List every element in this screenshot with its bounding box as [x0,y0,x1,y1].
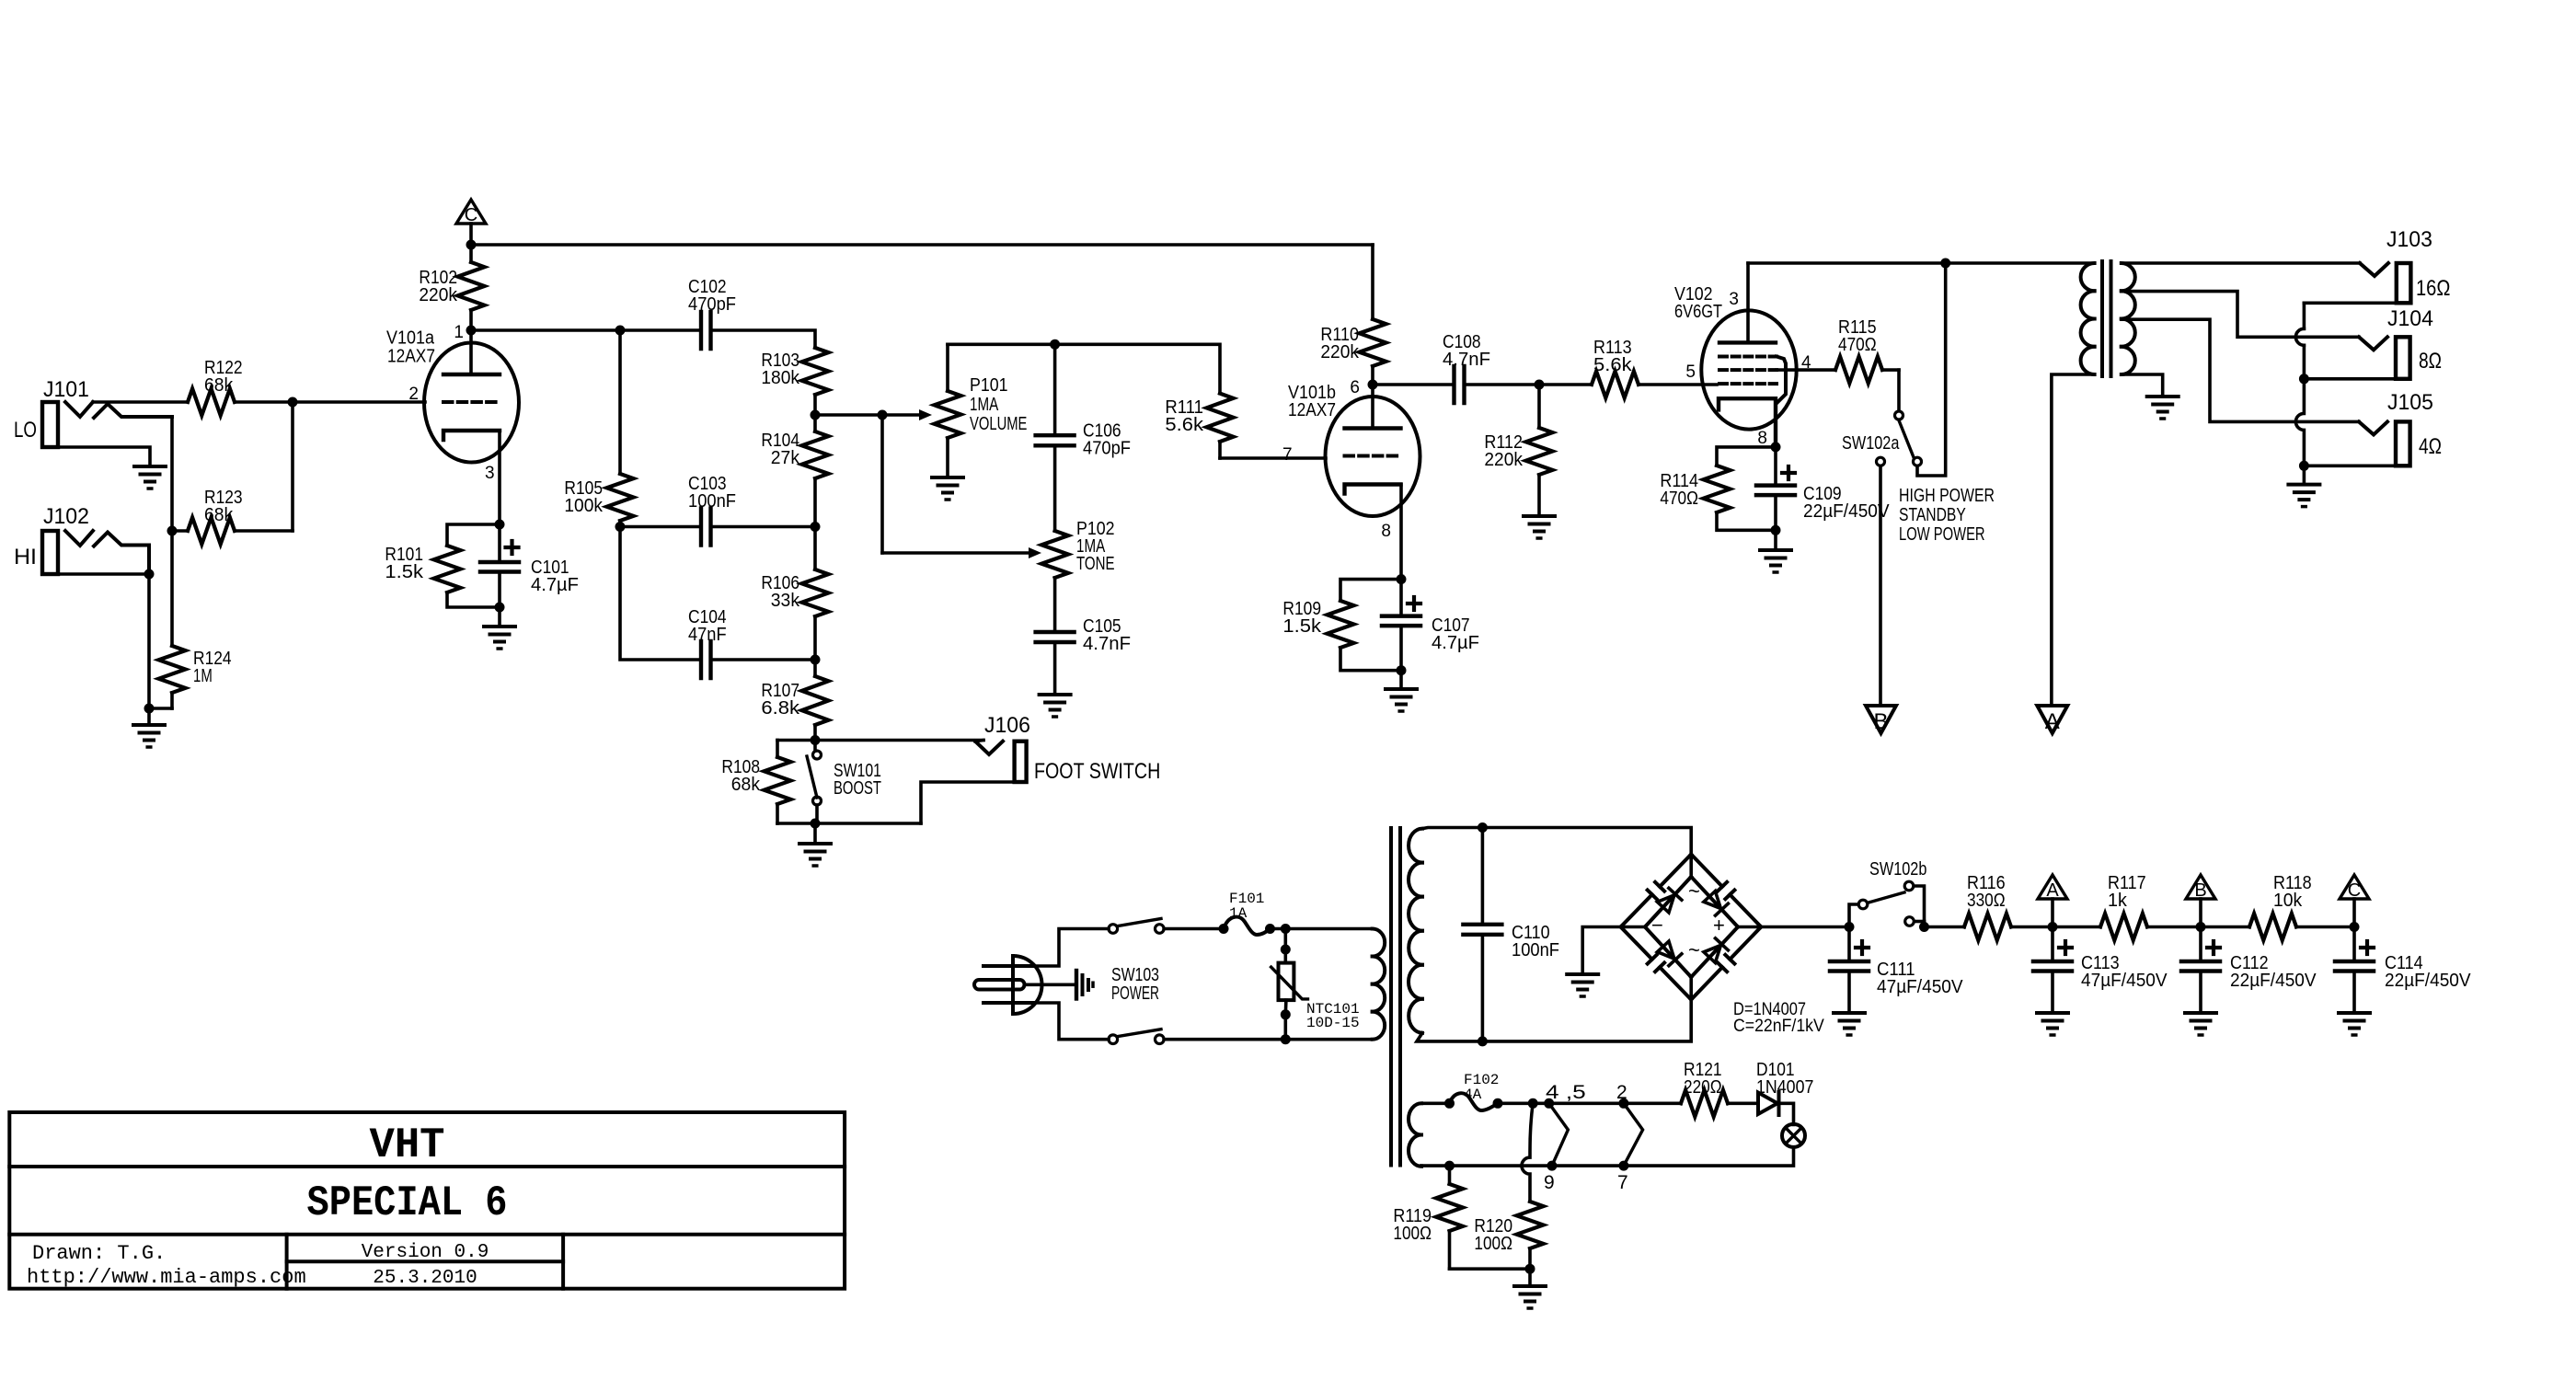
label 8 ohm [2419,349,2442,374]
pin label 2 heater [1616,1082,1627,1103]
svg-text:5.6k: 5.6k [1165,415,1204,435]
label R103 180k [761,351,799,371]
svg-text:1N4007: 1N4007 [1756,1077,1813,1098]
label C107 4.7uF [1432,633,1479,653]
wire: V101b cathode lead [1399,485,1403,580]
wire: C112 ground lead [2199,972,2202,1014]
wire: C114 top lead [2352,927,2356,962]
svg-text:47µF/450V: 47µF/450V [1877,977,1963,997]
label J102 [43,504,89,529]
junction: R122/R123 to grid [288,397,298,408]
jack J105 sleeve [2304,464,2396,467]
svg-text:1A: 1A [1229,905,1248,922]
label SW101 BOOST [834,778,881,799]
wire: NTC top lead [1284,929,1288,963]
mains plug neutral prong [983,1001,1034,1005]
wire: R111 to pin7 [1220,456,1326,460]
svg-text:1.5k: 1.5k [385,562,424,582]
bridge arm BR [1691,927,1738,978]
label R106 33k [771,591,800,611]
label P101 [970,375,1008,396]
svg-text:27k: 27k [771,448,800,468]
wire: V102 plate lead [1746,263,1750,342]
pin label 7 heater [1617,1172,1628,1193]
net arrow A (down) [2037,706,2067,733]
label NTC101 [1306,1001,1360,1018]
wire: lamp to bottom rail [1421,1147,1794,1166]
label R108 68k [721,757,760,777]
junction: C106/R111 node [1050,339,1060,350]
junction: C110 top [1478,822,1488,833]
wire: node to P101 wiper [815,413,882,417]
jack J101 shorting leaf [94,404,172,418]
label R124 1M [193,666,213,686]
net arrow B (down) [1866,706,1896,733]
jack J102 sleeve [58,572,149,576]
pin label 4,5 [1546,1082,1586,1103]
resistor R121 [1681,1090,1758,1117]
net arrow A (down) letter [2045,709,2060,734]
resistor R114 [1704,466,1731,512]
switch SW103 upper lever [1118,919,1161,926]
wire: J105 sleeve ground stem [2303,466,2306,484]
wire: J102 sleeve down [147,574,151,708]
switch SW103 upper contact [1156,925,1165,934]
wire: HV top rail [1482,828,1691,878]
title text VHT [370,1121,445,1169]
resistor R120 [1517,1202,1544,1269]
capacitor C105 [1036,632,1075,642]
ground: C113 [2037,1013,2068,1035]
label J104 [2387,306,2433,331]
supply arrow C out [2340,875,2369,899]
resistor R115 [1835,357,1899,384]
resistor R118 [2201,914,2354,940]
bridge snubber cap C (T-L) [1621,855,1692,927]
label J101 [43,377,89,402]
label R105 100k [564,496,604,516]
wire: C111 ground lead [1847,972,1851,1014]
svg-text:47nF: 47nF [688,625,727,645]
svg-text:B: B [1873,709,1888,734]
title block divider col2 [561,1235,565,1289]
junction: R124 bottom [144,704,155,714]
wire: C107 ground stem [1399,671,1403,689]
label V102 6V6GT [1674,302,1722,322]
wire: SW101 top rail [777,739,983,742]
label R115 470 [1838,335,1877,355]
supply arrow A letter [2046,880,2059,901]
mains plug earth pin [974,980,1025,990]
resistor R119 [1436,1166,1463,1269]
plus C111 [1856,941,1869,954]
svg-text:7: 7 [1282,445,1293,465]
pot P101 body [935,344,961,477]
resistor R124 [159,531,186,708]
lamp (pilot light) [1782,1124,1805,1147]
label R123 68k [204,488,243,508]
wiper arrow P102 [882,547,1041,558]
switch SW103 lower lever [1118,1029,1161,1037]
label C112 22uF/450V [2230,953,2269,973]
svg-text:68k: 68k [731,775,761,795]
label C101 4.7uF [531,558,569,578]
wire: OT 16ohm tap [2122,261,2360,265]
pin label 3 V102 [1729,290,1739,309]
jack J101 sleeve [58,447,150,466]
wire: B arrow stem [2199,899,2202,927]
ground: C105 [1040,695,1071,717]
label J103 [2386,227,2432,252]
junction node 6 (V101b plate) [1368,380,1378,390]
capacitor C114 [2335,961,2374,972]
label J106 [984,713,1030,738]
wire: C109 bottom lead [1774,495,1777,530]
wire: NTC to bottom rail [1284,1015,1288,1040]
label R118 10k [2273,891,2303,911]
svg-text:~: ~ [1688,938,1700,961]
svg-text:A: A [2045,709,2060,734]
svg-text:A: A [2046,880,2059,901]
pin label 8 V102 [1757,429,1767,448]
jack J102 shorting leaf [94,533,149,575]
switch SW102b bottom link [1915,920,1925,924]
svg-text:68k: 68k [204,375,234,396]
svg-text:C=22nF/1kV: C=22nF/1kV [1733,1017,1824,1036]
label F102 [1464,1072,1499,1088]
svg-text:12AX7: 12AX7 [1288,400,1336,420]
svg-text:8: 8 [1757,429,1767,448]
wire: D101 to lamp [1779,1103,1794,1124]
mains plug body [1013,956,1042,1014]
label R107 6.8k [761,698,800,719]
wire: heater ground stem [1528,1269,1532,1286]
junction: V101b cathode node [1397,574,1407,584]
label C113 47uF/450V [2081,953,2120,973]
svg-text:POWER: POWER [1111,983,1159,1004]
svg-text:+: + [1713,914,1725,937]
wire: C101 top lead [498,524,501,562]
tube V102 cathode [1719,398,1776,447]
capacitor C111 [1830,961,1869,972]
wire: NTC bottom lead [1284,1000,1288,1015]
svg-text:VOLUME: VOLUME [970,414,1027,434]
label R119 100 [1393,1206,1432,1226]
wire: HV bottom lead [1417,1033,1482,1041]
label R110 220k [1320,325,1359,345]
resistor R110 [1360,245,1386,385]
label R116 330 [1967,873,2006,893]
bridge label ~ top [1688,880,1700,903]
junction: pin 4-5 [1544,1098,1554,1109]
wire: node1 to C102 [471,328,701,332]
label R120 100 [1474,1234,1512,1254]
switch SW102b top contact [1904,881,1914,891]
label R104 27k [771,448,800,468]
svg-text:22µF/450V: 22µF/450V [2230,971,2317,991]
ground: SW101 [799,844,831,866]
svg-text:6V6GT: 6V6GT [1674,302,1722,322]
jack J101 tip contact [65,402,93,417]
wire: grid V101a pin2 [293,400,425,404]
wire: C102 to R103 [711,330,816,348]
label HI [14,545,37,569]
ground: C112 [2185,1013,2216,1035]
wire: plate rail to OT [1748,261,2095,265]
label R102 220k [419,285,458,305]
svg-text:220Ω: 220Ω [1684,1077,1722,1098]
title block frame [9,1112,845,1289]
wire: heater top lead [1421,1102,1450,1106]
capacitor C106 [1036,435,1075,445]
capacitor C110 [1463,925,1501,935]
label R107 6.8k [761,681,799,701]
fuse F101 left terminal [1219,924,1229,934]
tube V102 envelope [1701,310,1796,429]
ground: OT secondary [2147,397,2179,419]
wire: C111 top lead [1847,927,1851,962]
jack J104 box [2396,337,2410,379]
title text Drawn [32,1242,166,1265]
svg-text:Version 0.9: Version 0.9 [362,1242,489,1263]
junction node 1 (V101a plate) [466,326,477,336]
svg-text:100Ω: 100Ω [1393,1224,1432,1244]
wire: SW101 bottom rail [777,822,921,825]
jack J106 tip contact [975,742,1003,754]
label NTC101 10D-15 [1306,1015,1360,1031]
svg-text:4.7nF: 4.7nF [1443,350,1490,370]
ground: J101 sleeve [134,466,166,489]
junction: SW102b out [1919,922,1929,932]
capacitor C107 [1382,616,1420,627]
label R109 1.5k [1282,616,1322,637]
resistor R104 [802,415,829,527]
label C105 4.7nF [1083,616,1121,637]
svg-text:http://www.mia-amps.com: http://www.mia-amps.com [27,1266,306,1289]
svg-text:10k: 10k [2273,891,2303,911]
plus C107 [1408,597,1420,610]
ground: R112 [1524,516,1555,538]
transformer PT heater winding [1409,1103,1421,1167]
label V101b [1288,383,1336,403]
wire: F101 to primary [1271,927,1373,931]
wire: heater CT drop with hop [1522,1103,1533,1202]
junction: NTC bottom2 [1281,1009,1291,1019]
bridge snubber cap C (T-R) [1691,855,1761,927]
jack J102 tip contact [65,531,93,546]
wire: SW101 ground stem [813,823,817,844]
wire: C113 ground lead [2051,972,2054,1014]
bridge diode D2 (T-R) [1703,891,1728,915]
junction: V102 cathode node [1771,442,1781,452]
wire: C107 top lead [1399,580,1403,616]
label F101 [1229,891,1264,907]
fuse F102 left terminal [1444,1098,1455,1109]
junction: pin 7 [1618,1161,1628,1171]
wire: R122-R123 link [291,402,294,531]
supply arrow C (preamp B+) [456,200,486,224]
jack J104 sleeve [2304,377,2396,381]
title block divider row2 [9,1233,845,1236]
label R117 1k [2108,891,2128,911]
transformer pin bracket 2-7 [1624,1103,1643,1166]
label R118 10k [2273,873,2312,893]
wire: to R109 [1340,580,1401,601]
wire: SW101 left rail [776,741,779,758]
switch SW101 stem bottom [815,805,819,823]
wire: C110 top lead [1481,828,1485,925]
wiper arrow P101 [882,409,932,420]
junction: cathode node bottom [495,603,505,613]
label R111 5.6k [1165,415,1204,435]
svg-text:FOOT SWITCH: FOOT SWITCH [1034,759,1160,784]
label R113 5.6k [1593,338,1632,358]
resistor R103 [802,348,829,415]
tube V102 suppressor tie [1777,357,1786,404]
label C111 47uF/450V [1877,960,1915,980]
capacitor C102 [701,312,711,349]
wire: OT primary bottom to A [2052,374,2095,706]
wire: SW102b stub [1923,922,1926,927]
supply arrow A [2038,875,2067,899]
wire: node to R111 corner [1055,342,1220,346]
ground: bridge minus [1567,974,1598,996]
svg-text:J101: J101 [43,377,89,402]
wire: bridge minus to ground [1582,927,1645,975]
jack J103 sleeve [2304,301,2396,305]
wire: OT 8ohm tap [2122,292,2359,338]
tube V102 control grid [1719,382,1777,385]
label R123 68k [204,505,234,525]
resistor R102 [458,245,485,330]
junction: pin 2 [1618,1098,1628,1109]
svg-text:68k: 68k [204,505,234,525]
junction: heater drop [1528,1098,1538,1109]
thermistor NTC101 body [1279,963,1294,1001]
pot P102 body [1041,446,1068,633]
junction: C108/R112/R113 [1535,380,1545,390]
label R101 1.5k [385,562,424,582]
ground: J102/R124 [133,725,165,747]
svg-text:SW102a: SW102a [1842,433,1900,454]
switch SW102a lever [1899,420,1914,457]
svg-text:BOOST: BOOST [834,778,881,799]
label R114 470 [1660,489,1698,509]
pin label 5 V102 [1685,362,1696,382]
switch SW102a contact HP [1914,457,1922,466]
tube V101b [1326,397,1420,516]
junction: pin 9 [1547,1161,1557,1171]
junction: cathode node top [495,520,505,530]
label LO [14,418,37,443]
bridge diode D1 (L-T) [1657,888,1682,913]
svg-text:9: 9 [1544,1172,1555,1193]
label C=22nF/1kV [1733,1017,1824,1036]
label HIGH POWER [1899,486,1995,506]
wire: earth pin lead [1025,983,1075,987]
transformer OT primary winding [2081,263,2095,374]
label C109 22uF/450V [1803,484,1842,504]
junction: C107 bottom node [1397,665,1407,675]
ground: V102 cathode [1760,550,1791,572]
wire: R124 bottom link [149,707,172,710]
label R121 220 [1684,1060,1722,1080]
resistor R107 [802,660,829,741]
svg-text:−: − [1651,914,1663,937]
wire: R114 bottom [1717,512,1776,530]
capacitor C112 [2181,961,2220,972]
thermistor NTC101 stripe [1271,967,1308,999]
transformer PT core [1391,828,1400,1166]
switch SW102b pole [1858,900,1868,909]
label F101 1A [1229,905,1248,922]
label SW101 [834,761,881,781]
jack J104 tip contact [2359,337,2387,350]
label R121 220 [1684,1077,1722,1098]
wire: C112 top lead [2199,927,2202,962]
junction: R107/SW101 top [811,735,821,745]
svg-text:TONE: TONE [1076,554,1115,574]
ground: C114 [2339,1013,2370,1035]
label R124 1M [193,649,232,669]
wire: node6 to C108 [1373,383,1455,386]
label R112 220k [1484,432,1523,453]
wire: V101a plate lead [469,330,473,374]
svg-text:5: 5 [1685,362,1696,382]
jack J106 sleeve [921,782,1015,823]
wire: C arrow stem [2352,899,2356,927]
plus C112 [2207,941,2220,954]
label V101a [386,328,435,349]
label V101a 12AX7 [387,347,435,367]
svg-text:2: 2 [1616,1082,1627,1103]
plus C109 [1782,466,1795,479]
resistor R122 [93,389,293,416]
wire: to R124 ground stem [147,708,151,725]
switch SW103 lower pole [1109,1035,1118,1044]
wire: SW102a to B arrow [1879,466,1882,707]
label R120 100 [1474,1216,1512,1236]
svg-text:100Ω: 100Ω [1474,1234,1512,1254]
tube V101a [424,343,519,463]
svg-text:J102: J102 [43,504,89,529]
resistor R116 [1925,914,2053,940]
switch SW102a pole [1895,411,1903,420]
label R101 1.5k [385,545,423,565]
fuse F102 right terminal [1493,1098,1503,1109]
label C114 22uF/450V [2385,953,2423,973]
title block divider mid [287,1259,563,1263]
bridge arm TR [1691,877,1738,927]
svg-text:5.6k: 5.6k [1593,355,1633,375]
svg-text:P101: P101 [970,375,1008,396]
label D101 1N4007 [1756,1077,1813,1098]
label R105 100k [564,478,603,499]
svg-text:4.7µF: 4.7µF [1432,633,1479,653]
jack J103 box [2397,263,2411,303]
ground: speaker jacks [2288,485,2319,507]
svg-text:LO: LO [14,418,37,443]
junction: R119 top [1444,1161,1455,1171]
bridge label plus [1713,914,1725,937]
wire: plug neutral to SW103 [1034,1003,1109,1040]
wire: C rail to R110 [471,243,1373,247]
bridge diode D4 (B-R) [1703,938,1728,963]
wire: plug hot to SW103 [1034,929,1109,967]
svg-text:STANDBY: STANDBY [1899,505,1966,525]
pin label 8 V101b [1381,522,1391,541]
resistor R112 [1526,385,1553,516]
